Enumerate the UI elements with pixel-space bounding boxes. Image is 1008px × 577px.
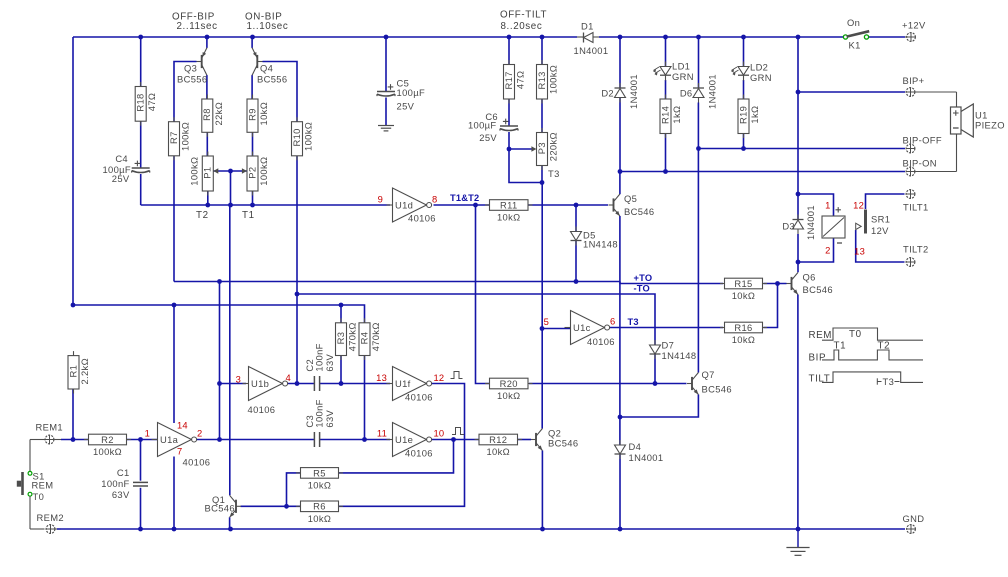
svg-text:100kΩ: 100kΩ bbox=[303, 122, 314, 151]
junction U1a output / T0 bbox=[217, 437, 222, 442]
wire LD1 top bbox=[665, 37, 667, 67]
svg-text:25V: 25V bbox=[112, 173, 130, 184]
svg-text:BC546: BC546 bbox=[624, 206, 654, 217]
capacitor C4 bbox=[132, 167, 150, 169]
svg-text:10kΩ: 10kΩ bbox=[732, 290, 756, 301]
svg-text:BC546: BC546 bbox=[803, 284, 833, 295]
junction R14 bottom bbox=[663, 169, 668, 174]
junction R4 bottom bbox=[362, 437, 367, 442]
resistor R18 bbox=[140, 82, 142, 87]
svg-text:1kΩ: 1kΩ bbox=[671, 106, 682, 124]
wire Q3 base to R7 bbox=[174, 62, 197, 122]
svg-text:47Ω: 47Ω bbox=[515, 71, 526, 90]
capacitor C5 bbox=[377, 91, 395, 93]
svg-text:47Ω: 47Ω bbox=[146, 93, 157, 112]
svg-text:T1&T2: T1&T2 bbox=[450, 193, 479, 203]
svg-text:TILT2: TILT2 bbox=[903, 244, 929, 255]
wire P3 wiper bbox=[509, 148, 532, 150]
wire Q4 base to R10 bbox=[263, 62, 298, 122]
wire D5 top bbox=[575, 205, 577, 232]
svg-text:R12: R12 bbox=[489, 434, 507, 445]
wire P1 bottom bbox=[207, 191, 209, 205]
svg-text:PIEZO: PIEZO bbox=[975, 120, 1005, 131]
wire R19 to BIP-OFF rail bbox=[743, 134, 745, 149]
junction D2 top bbox=[618, 35, 623, 40]
junction P1 bottom bbox=[205, 203, 210, 208]
wire Q5 collector bbox=[619, 172, 621, 195]
junction R18 top bbox=[138, 35, 143, 40]
junction Q2 emitter on GND rail bbox=[540, 527, 545, 532]
ground symbol near C5 bbox=[378, 125, 394, 127]
svg-text:40106: 40106 bbox=[587, 336, 615, 347]
svg-text:D3: D3 bbox=[782, 221, 795, 232]
junction U1b output / C2 bbox=[295, 381, 300, 386]
svg-text:T0: T0 bbox=[849, 329, 862, 340]
junction U1c input bbox=[540, 326, 545, 331]
terminal BIP+ bbox=[906, 88, 915, 97]
svg-text:1: 1 bbox=[825, 200, 830, 211]
terminal BIP-OFF bbox=[906, 144, 915, 153]
svg-text:R10: R10 bbox=[291, 128, 302, 146]
junction BIP+ branch bbox=[796, 90, 801, 95]
wire GND rail bbox=[57, 528, 905, 530]
junction U1e output / R5 bbox=[451, 437, 456, 442]
svg-text:GRN: GRN bbox=[750, 72, 772, 83]
junction Q1 emitter on GND rail bbox=[228, 527, 233, 532]
svg-text:R16: R16 bbox=[734, 322, 752, 333]
wire P3 node down to U1c input and Q2 collector bbox=[541, 183, 543, 429]
svg-text:BC546: BC546 bbox=[205, 503, 235, 514]
wire T1&T2 node down to R20 bbox=[476, 205, 490, 384]
junction C1 top node bbox=[138, 437, 143, 442]
svg-text:2: 2 bbox=[825, 245, 830, 256]
svg-text:R3: R3 bbox=[335, 332, 346, 345]
svg-text:BC546: BC546 bbox=[702, 384, 732, 395]
wire R5 left corner to Q1 base node bbox=[287, 473, 301, 506]
capacitor C1 bbox=[133, 481, 148, 483]
terminal +12V bbox=[907, 33, 916, 42]
svg-text:R15: R15 bbox=[734, 278, 752, 289]
wire U1a pin14 stub bbox=[173, 305, 175, 423]
inverter U1c bbox=[565, 327, 571, 329]
diode D1 bbox=[577, 36, 584, 38]
switch K1 bbox=[843, 35, 847, 39]
wire Q3 collector to R8 bbox=[206, 75, 208, 99]
svg-text:R1: R1 bbox=[67, 365, 78, 378]
wire D3 to Q6 collector node bbox=[797, 234, 799, 272]
svg-text:100µF: 100µF bbox=[397, 87, 426, 98]
junction R16 riser on R15 output bbox=[775, 281, 780, 286]
svg-text:12V: 12V bbox=[871, 225, 889, 236]
transistor Q2 bbox=[535, 433, 537, 446]
svg-text:100kΩ: 100kΩ bbox=[93, 446, 122, 457]
wire +12V top rail (left segment to D1) bbox=[73, 36, 577, 38]
wire R7 bottom to +TO rail bbox=[173, 156, 175, 282]
svg-text:P3: P3 bbox=[536, 142, 547, 154]
svg-text:U1b: U1b bbox=[251, 378, 269, 389]
wire P2 bottom bbox=[252, 191, 254, 205]
svg-text:1N4148: 1N4148 bbox=[662, 350, 697, 361]
junction P3 bottom node bbox=[540, 180, 545, 185]
svg-text:U1d: U1d bbox=[395, 199, 413, 210]
inverter U1e bbox=[387, 439, 393, 441]
junction R13 top bbox=[540, 35, 545, 40]
svg-text:LD1: LD1 bbox=[672, 61, 690, 72]
resistor R9 bbox=[252, 95, 254, 100]
svg-text:D2: D2 bbox=[601, 88, 614, 99]
svg-text:R9: R9 bbox=[246, 108, 257, 121]
inverter U1a bbox=[152, 439, 158, 441]
svg-text:Q6: Q6 bbox=[803, 272, 816, 283]
resistor R11 bbox=[485, 204, 490, 206]
LED LD1 bbox=[660, 67, 671, 76]
resistor R8 bbox=[206, 95, 208, 100]
svg-text:63V: 63V bbox=[112, 489, 130, 500]
resistor R4 bbox=[364, 318, 366, 323]
resistor R10 bbox=[296, 117, 298, 122]
inverter U1f bbox=[387, 383, 393, 385]
wire left +12V border bbox=[72, 37, 74, 305]
terminal REM1 bbox=[45, 435, 54, 444]
wire +12V trunk bbox=[797, 37, 799, 220]
wire R13 top bbox=[541, 37, 543, 65]
wire D4 to GND rail bbox=[619, 454, 621, 529]
capacitor C6 bbox=[500, 125, 518, 127]
wire relay contact pin13 to TILT2 bbox=[856, 230, 905, 262]
svg-text:T1: T1 bbox=[242, 210, 255, 221]
svg-text:1N4001: 1N4001 bbox=[574, 45, 609, 56]
wire U1b input stub bbox=[220, 383, 247, 385]
junction Q7 emitter on Q5 line bbox=[618, 415, 623, 420]
svg-text:12: 12 bbox=[434, 372, 445, 383]
transistor Q6 bbox=[791, 277, 793, 290]
resistor R2 bbox=[84, 439, 89, 441]
svg-text:BIP: BIP bbox=[809, 353, 827, 364]
wire Q1 emitter to GND bbox=[229, 517, 231, 529]
wire R15 to Q6 base bbox=[764, 283, 787, 285]
pulse icon pin10 bbox=[452, 428, 464, 435]
junction D2 / Q5 collector bbox=[618, 169, 623, 174]
junction D5 bottom bbox=[574, 279, 579, 284]
svg-text:100nF: 100nF bbox=[101, 478, 129, 489]
svg-text:BC546: BC546 bbox=[548, 438, 578, 449]
wire REM2 pin stub bbox=[55, 528, 61, 530]
wire Q3 emitter top bbox=[206, 37, 208, 48]
svg-text:T2: T2 bbox=[196, 210, 209, 221]
svg-text:10kΩ: 10kΩ bbox=[486, 446, 510, 457]
junction T1&T2 to R20 bbox=[473, 203, 478, 208]
svg-text:R20: R20 bbox=[500, 378, 518, 389]
junction Vcc rail left bbox=[71, 303, 76, 308]
wire D6 down to Q7 collector bbox=[697, 103, 699, 373]
wire R3 top stub bbox=[340, 305, 342, 323]
junction C5 top bbox=[384, 35, 389, 40]
potentiometer P1 bbox=[207, 152, 209, 157]
svg-text:U1a: U1a bbox=[160, 434, 179, 445]
wire C2 to U1f input bbox=[320, 383, 390, 385]
inverter U1b bbox=[243, 383, 249, 385]
terminal TILT1 bbox=[906, 190, 915, 199]
wire R17 to C6 bbox=[508, 99, 510, 126]
wire R18 top bbox=[140, 37, 142, 87]
wire potentiometer wiper link bbox=[213, 170, 247, 172]
svg-text:40106: 40106 bbox=[405, 448, 433, 459]
svg-text:U1c: U1c bbox=[573, 322, 591, 333]
svg-text:1N4001: 1N4001 bbox=[629, 452, 664, 463]
resistor R1 bbox=[73, 351, 75, 356]
svg-text:R13: R13 bbox=[536, 71, 547, 89]
wire U1a output row to U1e input bbox=[196, 439, 314, 441]
svg-text:OFF-TILT: OFF-TILT bbox=[500, 10, 547, 21]
junction D6 on BIP-OFF rail bbox=[696, 146, 701, 151]
diode D6 bbox=[693, 87, 704, 89]
svg-text:REM: REM bbox=[809, 330, 833, 341]
junction R3 bottom bbox=[339, 381, 344, 386]
transistor Q3 bbox=[201, 55, 203, 68]
wire R18 to C4 bbox=[140, 121, 142, 168]
junction C6 / P3 wiper node bbox=[507, 147, 512, 152]
junction R3 top bbox=[339, 303, 344, 308]
svg-text:22kΩ: 22kΩ bbox=[213, 102, 224, 126]
svg-text:R4: R4 bbox=[358, 332, 369, 345]
svg-text:100kΩ: 100kΩ bbox=[180, 122, 191, 151]
wire R10 line to U1b output node bbox=[296, 294, 298, 384]
svg-text:D1: D1 bbox=[581, 21, 594, 32]
svg-text:6: 6 bbox=[610, 316, 615, 327]
svg-text:40106: 40106 bbox=[183, 457, 211, 468]
wire R16 riser to R15 output bbox=[764, 284, 778, 328]
wire R9 to P2 bbox=[252, 132, 254, 156]
svg-text:T3: T3 bbox=[883, 376, 895, 387]
junction R17 top bbox=[507, 35, 512, 40]
svg-text:REM1: REM1 bbox=[36, 422, 63, 433]
wire Vcc rail mid bbox=[73, 305, 365, 323]
svg-text:R2: R2 bbox=[101, 434, 114, 445]
wire C1 to GND rail bbox=[140, 488, 142, 529]
wire U1c pin5 stub bbox=[542, 328, 571, 330]
junction D7 bottom bbox=[653, 381, 658, 386]
wire C3 to U1e input bbox=[320, 439, 390, 441]
svg-text:2..11sec: 2..11sec bbox=[177, 21, 218, 32]
wire R11 to Q5 base bbox=[528, 204, 608, 206]
junction REM1 / R1 node bbox=[71, 437, 76, 442]
svg-text:C1: C1 bbox=[117, 467, 130, 478]
svg-text:D4: D4 bbox=[629, 441, 642, 452]
wire C5 to ground bbox=[385, 98, 387, 126]
wire REM1 pin stub bbox=[54, 439, 61, 441]
wire C6 to wiper node bbox=[508, 132, 510, 149]
svg-text:11: 11 bbox=[377, 428, 387, 439]
svg-text:10kΩ: 10kΩ bbox=[308, 479, 332, 490]
resistor R15 bbox=[720, 283, 725, 285]
resistor R13 bbox=[541, 60, 543, 65]
transistor Q4 bbox=[256, 55, 258, 68]
capacitor C3 bbox=[313, 432, 315, 447]
wire relay contact pin12 to TILT1 bbox=[866, 194, 905, 209]
svg-text:+TO: +TO bbox=[634, 273, 653, 283]
svg-text:R14: R14 bbox=[659, 106, 670, 124]
svg-text:470kΩ: 470kΩ bbox=[347, 322, 358, 351]
svg-text:40106: 40106 bbox=[248, 404, 276, 415]
wire LD1 to R14 bbox=[665, 80, 667, 99]
junction U1a pin7 on GND rail bbox=[172, 527, 177, 532]
wire Q2 emitter to GND bbox=[541, 451, 543, 530]
potentiometer P2 bbox=[252, 152, 254, 157]
svg-text:C4: C4 bbox=[115, 153, 128, 164]
resistor R14 bbox=[665, 95, 667, 100]
wire D7 to Q7 base rail bbox=[654, 354, 656, 384]
svg-text:R17: R17 bbox=[503, 71, 514, 89]
svg-text:8: 8 bbox=[432, 194, 437, 205]
terminal TILT2 bbox=[906, 258, 915, 267]
resistor R17 bbox=[508, 60, 510, 65]
svg-text:1: 1 bbox=[145, 428, 150, 439]
wire LD2 top bbox=[743, 37, 745, 67]
svg-text:SR1: SR1 bbox=[871, 214, 890, 225]
svg-text:P2: P2 bbox=[246, 167, 257, 179]
wire +TO rail jog and right part bbox=[620, 282, 723, 284]
wire R12 to Q2 base bbox=[518, 439, 532, 441]
wire Q4 collector to R9 bbox=[251, 75, 253, 99]
junction R19 bottom bbox=[741, 146, 746, 151]
svg-text:GND: GND bbox=[903, 513, 925, 524]
svg-text:2: 2 bbox=[197, 428, 202, 439]
svg-text:40106: 40106 bbox=[408, 213, 436, 224]
wire BIP+ rail bbox=[798, 91, 905, 93]
svg-text:T3: T3 bbox=[628, 317, 639, 327]
wire K1 to +12V terminal bbox=[869, 36, 906, 38]
svg-text:BIP-OFF: BIP-OFF bbox=[903, 135, 942, 146]
svg-text:100µF: 100µF bbox=[468, 120, 497, 131]
wire R10 bottom to -TO corner bbox=[296, 156, 298, 294]
junction D5 top bbox=[574, 203, 579, 208]
svg-text:Q5: Q5 bbox=[624, 193, 637, 204]
wire relay coil pin2 bbox=[798, 238, 834, 262]
svg-text:14: 14 bbox=[177, 420, 188, 431]
svg-text:2.2kΩ: 2.2kΩ bbox=[79, 358, 90, 384]
svg-text:10kΩ: 10kΩ bbox=[732, 334, 756, 345]
svg-text:220kΩ: 220kΩ bbox=[548, 132, 559, 161]
wire C4 to T-rail bbox=[140, 174, 142, 205]
wire R14 to BIP-ON rail bbox=[665, 134, 667, 172]
junction D4 on GND rail bbox=[618, 527, 623, 532]
inverter U1d bbox=[387, 204, 393, 206]
wire D5 to +TO rail bbox=[575, 241, 577, 282]
junction ground symbol node bbox=[796, 527, 801, 532]
svg-text:10kΩ: 10kΩ bbox=[258, 102, 269, 126]
terminal REM2 bbox=[46, 525, 55, 534]
svg-text:U1f: U1f bbox=[395, 378, 411, 389]
wire wiper to Q1 collector bbox=[229, 171, 232, 495]
svg-text:R5: R5 bbox=[313, 467, 326, 478]
junction U1a pin14 rail bbox=[172, 303, 177, 308]
junction C1 on GND rail bbox=[138, 527, 143, 532]
relay SR1 coil bbox=[822, 216, 845, 238]
svg-text:12: 12 bbox=[853, 200, 864, 211]
junction Q3 emitter bbox=[205, 35, 210, 40]
resistor R20 bbox=[485, 383, 490, 385]
wire P3 bottom bbox=[541, 166, 543, 183]
svg-text:1N4001: 1N4001 bbox=[805, 205, 816, 240]
wire U1e output to R12 bbox=[432, 439, 479, 441]
wire D2 top bbox=[619, 37, 621, 88]
resistor R6 bbox=[296, 505, 301, 507]
wire Q1 base to R6 bbox=[241, 505, 301, 507]
wire +TO rail left part bbox=[174, 281, 620, 283]
svg-text:8..20sec: 8..20sec bbox=[501, 21, 543, 32]
junction relay pin1 branch bbox=[796, 192, 801, 197]
wire R17 top bbox=[508, 37, 510, 65]
wire Q5 emitter down through D4 bbox=[619, 216, 621, 445]
LED LD2 bbox=[738, 67, 749, 76]
svg-text:R6: R6 bbox=[313, 501, 326, 512]
wire Q7 emitter to Q5 emitter line bbox=[620, 395, 699, 418]
transistor Q7 bbox=[691, 377, 693, 390]
svg-text:10kΩ: 10kΩ bbox=[497, 390, 521, 401]
junction P2 bottom bbox=[250, 203, 255, 208]
svg-text:K1: K1 bbox=[849, 40, 861, 51]
svg-text:9: 9 bbox=[378, 194, 383, 205]
junction U1b input bbox=[217, 381, 222, 386]
wire relay coil pin1 bbox=[798, 194, 834, 216]
svg-text:+12V: +12V bbox=[902, 20, 926, 31]
wire Q6 emitter to GND bbox=[797, 295, 799, 530]
svg-text:1..10sec: 1..10sec bbox=[247, 21, 289, 32]
svg-text:BC556: BC556 bbox=[177, 74, 207, 85]
svg-text:-TO: -TO bbox=[634, 284, 650, 294]
diode D2 bbox=[615, 87, 626, 89]
diode D3 bbox=[793, 219, 804, 221]
svg-text:Q4: Q4 bbox=[260, 63, 273, 74]
svg-text:13: 13 bbox=[376, 372, 387, 383]
svg-text:4: 4 bbox=[286, 372, 291, 383]
svg-text:10kΩ: 10kΩ bbox=[308, 513, 332, 524]
junction LD2 top bbox=[741, 35, 746, 40]
potentiometer P3 bbox=[541, 128, 543, 133]
piezo U1 bbox=[915, 91, 956, 93]
wire BIP-OFF rail bbox=[699, 148, 906, 150]
wire REM1 to R2 bbox=[61, 439, 88, 441]
svg-text:3: 3 bbox=[236, 374, 241, 385]
svg-text:1N4001: 1N4001 bbox=[628, 74, 639, 109]
wire R20 output rail to Q7 base bbox=[529, 383, 687, 385]
relay SR1 contact bbox=[864, 210, 867, 234]
wire R1 bottom to REM1 node bbox=[72, 389, 74, 440]
svg-text:LD2: LD2 bbox=[750, 62, 768, 73]
junction wiper line on T rail bbox=[228, 203, 233, 208]
svg-text:Q3: Q3 bbox=[184, 63, 197, 74]
junction relay pin2 / Q6 collector bbox=[796, 260, 801, 265]
svg-text:D6: D6 bbox=[680, 88, 693, 99]
resistor R16 bbox=[720, 327, 725, 329]
diode D4 bbox=[615, 445, 626, 454]
resistor R12 bbox=[475, 439, 480, 441]
capacitor C2 bbox=[313, 376, 315, 391]
pulse icon pin12 bbox=[451, 372, 463, 379]
wire R13 to P3 bbox=[541, 99, 543, 133]
ground symbol main bbox=[797, 529, 799, 548]
svg-text:BC556: BC556 bbox=[257, 74, 287, 85]
wire T1/T2 rail to U1d input bbox=[141, 204, 390, 206]
wire D2 to BIP-ON rail bbox=[619, 98, 621, 172]
wire C6 node down-right to P3 bottom node bbox=[509, 149, 542, 183]
svg-text:13: 13 bbox=[854, 246, 865, 257]
wire C5 top bbox=[385, 37, 387, 92]
svg-text:REM: REM bbox=[32, 480, 54, 491]
svg-text:REM2: REM2 bbox=[37, 512, 64, 523]
svg-text:BIP-ON: BIP-ON bbox=[903, 158, 937, 169]
resistor R3 bbox=[340, 318, 342, 323]
